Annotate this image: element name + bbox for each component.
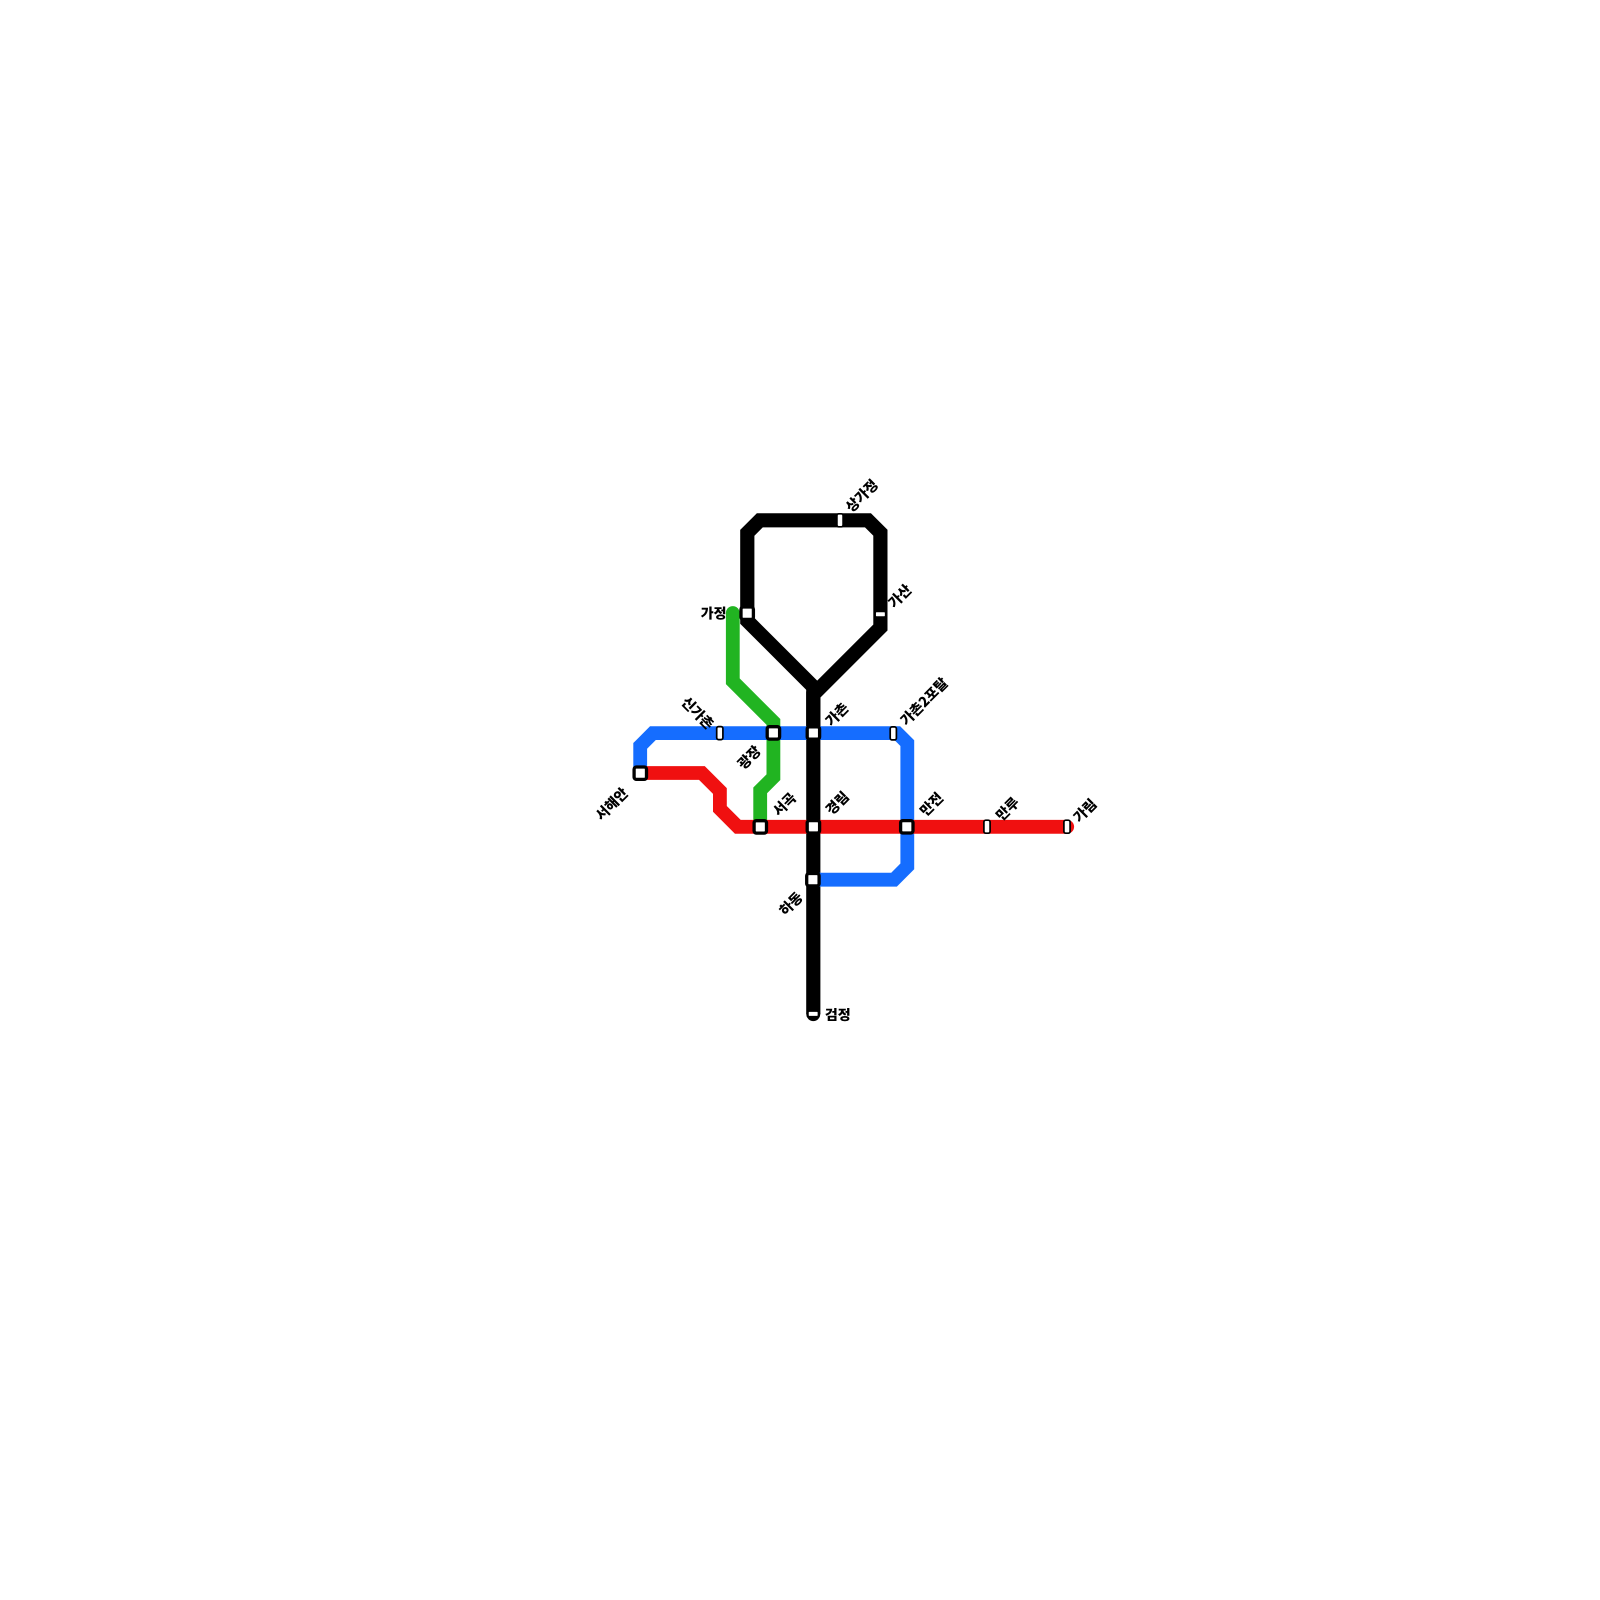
green line (가정-광장-서곡) <box>733 613 774 827</box>
red line (서해안-서곡-경림-만전-만루-가림) <box>640 773 1067 827</box>
station 서곡 (red/green interchange) <box>754 821 766 833</box>
label 광장 <box>735 744 762 771</box>
station 가촌2포탈 (tick on blue line) <box>890 727 896 740</box>
red line terminus cap at 가림 <box>1060 820 1074 834</box>
label 하동 <box>777 890 804 917</box>
black line stem (가촌-경림-하동-검정) <box>806 687 820 1014</box>
label 가촌2포탈 <box>898 676 949 727</box>
station 만전 (red/blue interchange) <box>901 821 913 833</box>
black line loop left branch (가정 down to junction) <box>747 613 813 687</box>
station 가산 (tick on black loop right) <box>875 611 886 617</box>
black line loop (가정-상가정-가산-가촌) <box>747 520 880 733</box>
green line terminus cap at 가정 <box>726 606 740 620</box>
station 가정 (black/green interchange) <box>741 607 753 619</box>
label 가촌 <box>823 701 850 728</box>
station 서해안 (blue/red interchange) <box>634 767 646 779</box>
label 만루 <box>994 795 1021 822</box>
label 만전 <box>918 791 944 817</box>
label 서해안 <box>593 786 629 822</box>
label 가림 <box>1071 798 1097 824</box>
label 가정 <box>701 607 725 620</box>
label 검정 <box>825 1008 849 1021</box>
label 경림 <box>824 790 850 816</box>
label 서곡 <box>771 791 798 818</box>
station 상가정 (tick on black loop top) <box>837 514 843 527</box>
station 검정 (terminus tick on black line) <box>808 1011 819 1017</box>
station 광장 (blue/green interchange) <box>767 727 779 739</box>
black line terminus cap at 검정 <box>806 1007 820 1021</box>
station 신가촌 (tick on blue line) <box>717 727 723 740</box>
station 가촌 (blue/black interchange) <box>807 727 819 739</box>
label 신가촌 <box>680 695 716 731</box>
blue line (서해안-신가촌-광장-가촌-가촌2포탈-만전-하동) <box>640 733 907 880</box>
label 가산 <box>886 582 913 609</box>
station 가림 (terminus tick on red line) <box>1064 820 1070 833</box>
station 경림 (red/black interchange) <box>807 821 819 833</box>
station 하동 (black/blue interchange) <box>807 874 819 886</box>
label 상가정 <box>843 478 879 514</box>
station 만루 (tick on red line) <box>984 820 990 833</box>
